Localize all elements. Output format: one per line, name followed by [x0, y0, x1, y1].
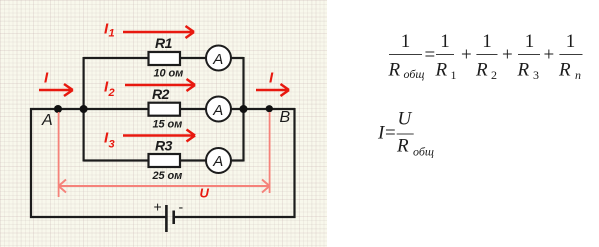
wire: left outer vertical [30, 108, 32, 218]
svg-text:=: = [425, 45, 436, 66]
svg-text:-: - [179, 199, 184, 215]
svg-text:R: R [388, 60, 401, 81]
svg-text:1: 1 [566, 31, 576, 52]
svg-text:10 ом: 10 ом [154, 67, 184, 79]
svg-text:25 ом: 25 ом [152, 170, 183, 182]
svg-text:R: R [517, 60, 530, 81]
current arrow I (left) [39, 84, 73, 96]
wire: main bus A to B [30, 108, 295, 110]
svg-text:I: I [44, 70, 49, 87]
svg-text:B: B [280, 109, 291, 126]
current arrow I3 [123, 130, 195, 142]
U dimension extension line left [58, 112, 60, 197]
ammeter A2 [206, 97, 231, 122]
node A junction [54, 105, 62, 113]
svg-text:3: 3 [533, 68, 539, 82]
svg-text:1: 1 [401, 31, 411, 52]
svg-text:U: U [398, 109, 413, 130]
svg-text:общ: общ [404, 67, 425, 81]
svg-text:R: R [396, 136, 409, 157]
wire: bottom left to battery [30, 216, 166, 218]
svg-text:3: 3 [109, 139, 115, 151]
svg-text:1: 1 [482, 31, 492, 52]
svg-text:n: n [575, 68, 581, 82]
U dimension line with arrows [59, 180, 270, 193]
svg-text:1: 1 [440, 31, 450, 52]
wire: left branch bus [82, 57, 84, 162]
battery B1 [154, 199, 184, 233]
current arrow I (right) [256, 84, 289, 96]
svg-text:2: 2 [491, 68, 497, 82]
wire: right outer vertical [293, 108, 295, 218]
svg-text:A: A [212, 102, 223, 119]
svg-text:R: R [558, 60, 571, 81]
wire: branch 3 [84, 159, 244, 161]
ammeter A1 [206, 46, 231, 71]
resistor R3 [149, 154, 181, 167]
svg-text:2: 2 [108, 87, 115, 99]
U dimension extension line right [269, 112, 271, 193]
label I3 [104, 130, 115, 151]
formula: 1/Robshch = 1/R1 + 1/R2 + 1/R3 + 1/Rn [388, 31, 583, 82]
current arrow I2 [125, 79, 195, 91]
svg-text:+: + [154, 199, 162, 215]
wire: right branch bus [242, 57, 244, 162]
svg-text:R3: R3 [155, 138, 173, 154]
svg-text:A: A [212, 153, 223, 170]
svg-text:=: = [385, 123, 396, 144]
svg-text:+: + [544, 45, 555, 66]
svg-text:1: 1 [525, 31, 535, 52]
svg-text:I: I [269, 70, 274, 87]
svg-text:R: R [475, 60, 488, 81]
svg-text:+: + [502, 45, 513, 66]
label I1 [104, 21, 115, 40]
svg-text:U: U [200, 186, 210, 201]
wire: branch 1 [84, 57, 244, 59]
resistor R1 [149, 52, 181, 65]
resistor R2 [149, 103, 181, 116]
svg-text:+: + [461, 45, 472, 66]
svg-text:R2: R2 [152, 86, 170, 102]
node: right bus junction [240, 105, 248, 113]
svg-text:A: A [41, 112, 53, 129]
svg-text:R1: R1 [155, 35, 173, 51]
node B junction [266, 105, 273, 112]
svg-text:1: 1 [109, 28, 115, 40]
svg-text:общ: общ [413, 145, 434, 159]
svg-text:A: A [212, 51, 223, 68]
label I2 [104, 79, 115, 100]
current arrow I1 [123, 26, 194, 38]
ammeter A3 [206, 148, 231, 173]
wire: battery to bottom right [174, 216, 296, 218]
formula: I = U/Robshch [377, 109, 434, 159]
svg-text:15 ом: 15 ом [153, 118, 183, 130]
node: left bus junction [80, 105, 88, 113]
svg-text:1: 1 [451, 68, 457, 82]
svg-text:R: R [435, 60, 448, 81]
